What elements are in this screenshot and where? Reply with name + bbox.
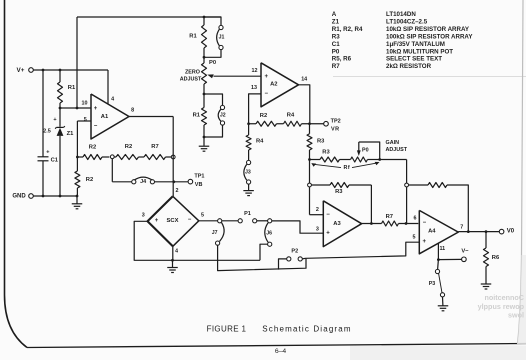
svg-text:A: A [332,11,337,18]
svg-text:J6: J6 [266,231,272,237]
svg-text:R7: R7 [332,63,340,70]
svg-text:2kΩ RESISTOR: 2kΩ RESISTOR [386,63,432,70]
svg-text:ZERO: ZERO [185,69,200,75]
svg-text:SELECT SEE TEXT: SELECT SEE TEXT [386,56,442,63]
svg-text:R1, R2, R4: R1, R2, R4 [332,26,363,33]
svg-text:SCX: SCX [167,218,179,224]
svg-text:4: 4 [111,96,114,102]
svg-text:GND: GND [12,193,26,199]
svg-text:+: + [422,239,426,245]
svg-text:R7: R7 [386,214,393,220]
svg-text:+: + [155,218,159,224]
svg-text:P1: P1 [244,211,251,217]
svg-text:3: 3 [316,226,319,232]
svg-text:V−: V− [461,248,469,254]
svg-text:LT1004CZ–2.5: LT1004CZ–2.5 [386,18,428,25]
svg-text:swol: swol [508,311,524,320]
svg-text:13: 13 [251,85,257,91]
svg-text:C1: C1 [332,41,340,48]
svg-text:R1: R1 [193,112,201,118]
svg-text:R2: R2 [125,144,132,150]
svg-text:R2: R2 [89,145,96,151]
svg-text:J1: J1 [219,35,225,41]
svg-text:ADJUST: ADJUST [386,147,408,153]
svg-text:P0: P0 [362,147,369,153]
svg-text:VB: VB [195,182,203,188]
svg-text:Z1: Z1 [67,131,75,137]
svg-text:ADJUST: ADJUST [180,77,202,83]
svg-text:J4: J4 [140,179,146,185]
svg-text:R7: R7 [151,144,158,150]
svg-text:J2: J2 [220,112,226,118]
svg-text:−: − [264,91,268,97]
svg-text:R3: R3 [335,189,343,195]
svg-text:P3: P3 [429,281,436,287]
svg-text:2: 2 [316,207,319,213]
svg-text:R2: R2 [260,113,267,119]
svg-text:2.5: 2.5 [43,128,51,134]
svg-text:R4: R4 [256,138,264,144]
svg-text:10: 10 [82,100,88,106]
svg-text:C1: C1 [51,157,59,163]
svg-text:A3: A3 [333,221,341,227]
svg-text:100kΩ SIP RESISTOR ARRAY: 100kΩ SIP RESISTOR ARRAY [386,33,473,40]
svg-text:3: 3 [142,212,145,218]
svg-text:R3: R3 [317,138,325,144]
svg-text:1μF/35V TANTALUM: 1μF/35V TANTALUM [386,41,445,48]
svg-text:7: 7 [460,224,463,230]
svg-text:6: 6 [414,216,417,222]
svg-text:6–4: 6–4 [275,348,287,355]
svg-text:noitcennoC: noitcennoC [484,293,524,302]
svg-text:V R: V R [331,126,339,132]
svg-text:J3: J3 [245,169,251,175]
svg-text:V0: V0 [507,229,515,235]
svg-text:R5, R6: R5, R6 [332,56,352,63]
svg-text:R1: R1 [68,85,76,91]
svg-text:J7: J7 [212,230,218,236]
svg-text:10kΩ MULTITURN POT: 10kΩ MULTITURN POT [386,48,453,55]
svg-text:Z1: Z1 [332,18,340,25]
svg-text:4: 4 [175,248,178,254]
svg-text:+: + [94,106,98,112]
svg-text:+: + [264,74,268,80]
svg-text:5: 5 [84,117,87,123]
svg-text:R3: R3 [322,149,330,155]
svg-text:FIGURE 1: FIGURE 1 [207,325,247,334]
svg-text:10kΩ SIP RESISTOR ARRAY: 10kΩ SIP RESISTOR ARRAY [386,26,470,33]
svg-text:−: − [326,212,330,218]
svg-text:11: 11 [439,246,445,252]
svg-text:R4: R4 [287,113,295,119]
svg-text:R2: R2 [86,177,93,183]
svg-text:5: 5 [413,234,416,240]
svg-text:+: + [53,117,56,123]
svg-text:TP1: TP1 [194,174,204,180]
svg-text:TP2: TP2 [331,118,341,124]
svg-text:R6: R6 [492,255,500,261]
svg-text:GAIN: GAIN [386,140,400,146]
svg-text:+: + [326,231,330,237]
svg-text:R1: R1 [189,33,197,39]
svg-text:P0: P0 [209,60,216,66]
svg-text:Schematic Diagram: Schematic Diagram [262,325,351,334]
svg-text:12: 12 [252,68,258,74]
svg-text:A4: A4 [428,229,436,235]
svg-text:P0: P0 [332,48,340,55]
svg-text:14: 14 [301,77,307,83]
svg-text:R3: R3 [332,33,340,40]
svg-text:LT1014DN: LT1014DN [386,11,416,18]
svg-text:A2: A2 [270,82,277,88]
svg-text:5: 5 [201,212,204,218]
svg-text:−: − [94,123,98,129]
svg-text:V+: V+ [17,67,25,74]
svg-text:P2: P2 [291,248,298,254]
svg-text:−: − [188,217,192,223]
svg-text:R f: R f [344,165,350,171]
svg-text:−: − [423,220,427,226]
svg-text:2: 2 [176,188,179,194]
svg-text:+: + [46,150,49,156]
svg-text:8: 8 [131,108,134,114]
svg-text:A1: A1 [101,114,109,120]
